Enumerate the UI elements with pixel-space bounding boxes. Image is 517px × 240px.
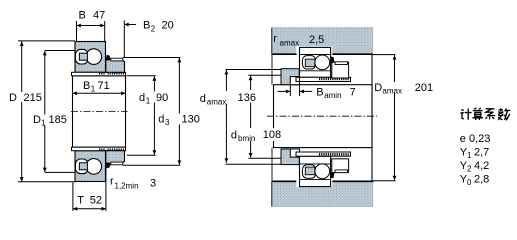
svg-text:4,2: 4,2 (474, 160, 489, 172)
bearing top section (72, 42, 126, 76)
svg-text:amax: amax (382, 87, 402, 96)
svg-text:1: 1 (146, 97, 151, 106)
svg-text:1: 1 (41, 119, 46, 128)
svg-text:7: 7 (350, 87, 356, 99)
svg-text:B: B (316, 87, 323, 99)
housing bore notch top (296, 46, 332, 55)
dimension D1 185 (32, 51, 75, 173)
svg-text:3: 3 (150, 178, 156, 190)
计 (460, 109, 471, 120)
housing side walls (371, 54, 373, 181)
svg-text:e 0,23: e 0,23 (460, 133, 491, 145)
centerline left view (71, 110, 128, 112)
dimension B amin 7 (278, 77, 356, 100)
svg-text:201: 201 (415, 82, 433, 94)
svg-text:2,8: 2,8 (474, 174, 489, 186)
table: calculation factors (计算系数) (460, 108, 511, 187)
svg-text:130: 130 (182, 114, 200, 126)
svg-text:2,5: 2,5 (309, 34, 324, 46)
svg-text:d: d (139, 92, 145, 104)
ball left (with cage) (75, 49, 88, 64)
cage pocket (79, 53, 87, 60)
svg-text:d: d (158, 114, 164, 126)
svg-text:D: D (33, 114, 41, 126)
dimension d3 130 (123, 58, 200, 166)
housing band top (272, 28, 373, 55)
数 (498, 108, 510, 120)
svg-text:r: r (273, 33, 277, 45)
svg-text:1,2min: 1,2min (115, 182, 139, 191)
svg-text:1: 1 (467, 151, 472, 160)
svg-text:d: d (200, 93, 206, 105)
svg-text:d: d (231, 130, 237, 142)
svg-text:amin: amin (324, 91, 341, 100)
svg-text:1: 1 (91, 84, 96, 93)
lock washer strip (111, 58, 123, 61)
sleeve bore rectangle (73, 76, 126, 147)
sleeve strip (72, 72, 126, 76)
lock nut (106, 59, 125, 73)
sleeve strip (296, 77, 351, 81)
svg-text:71: 71 (98, 80, 110, 92)
svg-text:3: 3 (165, 118, 170, 127)
label r 1,2min 3 (110, 176, 156, 191)
centerline right view (267, 115, 377, 117)
svg-text:amax: amax (207, 98, 227, 107)
shaft abutment bottom (226, 149, 300, 165)
dimension d amax 136 (199, 70, 257, 163)
washer tab (106, 55, 111, 61)
svg-text:185: 185 (49, 114, 67, 126)
svg-text:D: D (374, 82, 382, 94)
svg-text:215: 215 (24, 92, 42, 104)
svg-text:52: 52 (90, 195, 102, 207)
svg-text:B: B (143, 20, 150, 32)
dimension d1 90 (127, 76, 169, 155)
svg-text:r: r (110, 176, 114, 188)
svg-text:bmin: bmin (238, 134, 255, 143)
svg-text:136: 136 (238, 92, 256, 104)
svg-text:47: 47 (93, 10, 105, 22)
svg-text:0: 0 (467, 178, 472, 187)
bearing right view top (296, 47, 351, 81)
housing band bottom (272, 181, 374, 206)
系 (485, 109, 495, 120)
nut (332, 62, 349, 78)
dimension D 215 (8, 41, 76, 182)
housing bore notch bottom (296, 180, 332, 187)
dimension B1 71 (73, 80, 126, 94)
svg-text:90: 90 (156, 92, 168, 104)
svg-text:2: 2 (151, 25, 156, 34)
dimension T 52 (73, 166, 106, 211)
shaft abutment top (226, 69, 300, 85)
ball right (86, 49, 102, 65)
label r amax 2,5 (273, 33, 324, 48)
svg-text:20: 20 (162, 20, 174, 32)
svg-text:D: D (9, 92, 17, 104)
shaft rectangle (274, 85, 373, 148)
svg-text:2,7: 2,7 (474, 147, 489, 159)
svg-text:108: 108 (263, 129, 281, 141)
dimension B 47 (77, 10, 106, 42)
dimension D amax 201 (373, 55, 433, 181)
bearing bottom section (mirror) (72, 147, 126, 181)
算 (472, 108, 483, 120)
outer+inner ring hatched block (75, 42, 106, 73)
dimension B2 20 (124, 20, 173, 58)
svg-text:B: B (79, 10, 86, 22)
svg-text:amax: amax (280, 39, 300, 48)
svg-text:T: T (77, 195, 84, 207)
dimension d bmin 108 (230, 76, 282, 158)
svg-text:2: 2 (467, 165, 472, 174)
sleeve thread teeth (99, 72, 105, 74)
bearing right view bottom (296, 152, 351, 187)
svg-text:B: B (83, 80, 90, 92)
